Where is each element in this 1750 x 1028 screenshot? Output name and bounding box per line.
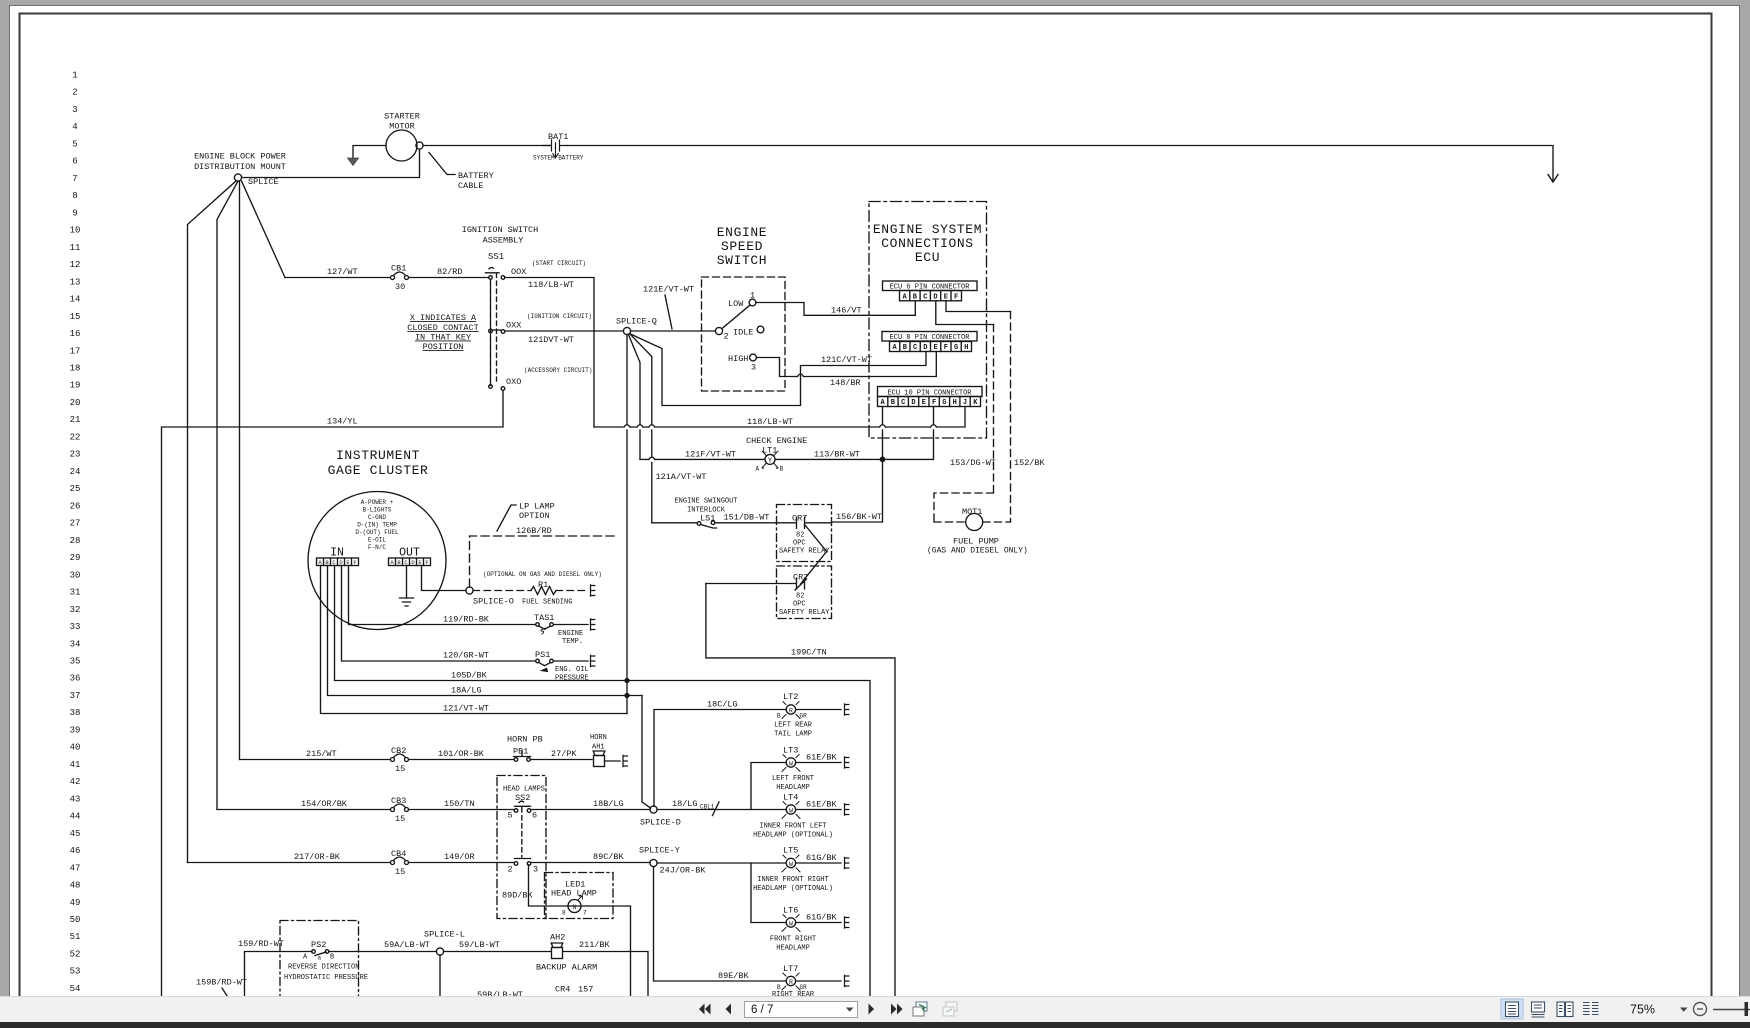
wire 119/RD-BK row <box>349 566 536 625</box>
wire LT6 branch <box>751 863 841 923</box>
wire 199C/TN <box>706 584 895 997</box>
engine speed switch title <box>717 225 767 268</box>
viewer chrome <box>0 0 1750 5</box>
wire 211/BK <box>563 952 648 997</box>
connector E LT4 <box>845 804 849 815</box>
lamp LT6 front right headlamp <box>770 906 838 953</box>
connector E LT6 <box>845 917 849 928</box>
wire 18/LG with cable marker CBL1 <box>657 809 841 811</box>
instrument gage cluster title <box>328 448 429 478</box>
lamp LT3 left front headlamp <box>772 746 838 793</box>
wire ECU pin F down <box>886 407 934 460</box>
lamp LT7 right rear <box>772 964 815 999</box>
wire CB4 row 217/OR-BK <box>188 862 391 864</box>
instrument gage cluster circle <box>308 492 446 630</box>
row numbers <box>70 71 81 995</box>
PS2 box <box>280 921 359 1011</box>
circuit breaker CB1 <box>391 264 409 293</box>
wire 59/LB-WT <box>444 951 552 953</box>
connector E oil pressure <box>591 655 595 666</box>
layout icon single page (selected) <box>1501 999 1523 1019</box>
lamp LT4 inner front left <box>753 793 837 840</box>
wire 149/OR <box>409 862 515 864</box>
switch contact LOW <box>728 291 756 310</box>
circuit breaker CB3 <box>391 796 409 824</box>
ground symbol <box>400 598 414 606</box>
wire 148/BR high to ECU pin E <box>757 352 937 377</box>
wire OUT to splice-O <box>422 566 467 591</box>
LP lamp option dashed wire 126B/RD <box>470 536 618 587</box>
relay CR7 lower contact <box>706 573 830 618</box>
relay CR7 lower box <box>777 566 832 619</box>
switch wiper idle-low <box>722 306 750 329</box>
splice fan wire to CB4 column <box>188 181 237 863</box>
connector E tail lamp <box>845 704 849 715</box>
wire 89D/BK to LED1 <box>529 865 631 997</box>
ground arrow <box>348 158 359 166</box>
cluster legend <box>355 499 399 551</box>
wire 101/OR-BK <box>409 759 515 761</box>
key position note <box>407 313 478 352</box>
lamp LT5 inner front right <box>753 846 837 894</box>
icon previous view <box>913 1002 927 1016</box>
wire 146/VT low to ECU pin B <box>756 301 915 316</box>
splice node SPLICE-Q <box>623 327 630 334</box>
switch contact HIGH <box>728 354 756 373</box>
wire 24J/OR-BK <box>657 862 841 864</box>
wire 152/BK from ECU 6pin E <box>946 301 1011 312</box>
wire 121/VT-WT row <box>321 566 628 714</box>
splice fan wire to CB2 column <box>239 181 241 760</box>
switch SS2 upper contacts 5-6 <box>508 801 538 858</box>
relay CR7 upper box <box>777 505 832 562</box>
splice node SPLICE-O <box>466 587 473 594</box>
splice-Q drop to check engine <box>629 335 641 460</box>
wire 82/RD <box>409 277 490 279</box>
termination arrow right <box>1548 175 1558 183</box>
ECU 8 pin connector <box>882 332 977 353</box>
wire 18A/LG row <box>328 566 643 696</box>
switch contact IDLE <box>715 326 763 341</box>
cluster IN connector <box>317 547 359 567</box>
connector E LT5 <box>845 857 849 868</box>
backup alarm AH2 <box>536 933 597 973</box>
temp switch TAS1 <box>534 613 588 646</box>
connector E fuel sending <box>591 585 595 596</box>
resistor R1 fuel sending <box>473 580 588 607</box>
starter motor <box>384 112 423 162</box>
wire 153/DG-WT from ECU 6pin D <box>936 301 994 325</box>
wire 89E/BK LT7 branch <box>654 867 842 982</box>
limit switch LS1 <box>697 514 716 529</box>
connector E LT3 <box>845 757 849 768</box>
wire starter motor to battery <box>423 145 550 147</box>
wire splice-Q to idle <box>631 330 716 332</box>
splice fan wire to CB3 column <box>217 181 238 810</box>
head lamps SS2 box <box>497 776 546 919</box>
wire check engine row 121F/VT-WT 113/BR-WT <box>640 458 883 460</box>
wire 27/PK <box>531 759 593 761</box>
wire 151/DB-WT row <box>652 522 697 524</box>
check engine lamp LT1 <box>746 436 807 473</box>
splice node SPLICE-Y <box>650 859 657 866</box>
ECU system connections box <box>869 202 987 439</box>
wire 118/LB-WT row <box>594 407 965 428</box>
lamp LT2 left rear tail <box>774 692 813 739</box>
icon next view (disabled) <box>943 1002 957 1016</box>
wire 134/YL row <box>162 391 504 997</box>
wire ECU drop to 156/BK-WT <box>832 459 883 522</box>
connector E horn <box>623 755 627 766</box>
LED1 head lamp box <box>545 873 614 919</box>
layout icon continuous <box>1532 1002 1545 1017</box>
wire ECU pin A down <box>882 407 884 460</box>
wire starter motor to ground <box>353 146 386 159</box>
wire 59A/LB-WT <box>329 951 437 953</box>
wire 150/TN <box>409 809 515 811</box>
splice node SPLICE-D <box>650 806 657 813</box>
battery BAT1 <box>533 132 584 162</box>
ECU 10 pin connector <box>878 387 983 408</box>
wire 118/LB-WT from OOX down <box>505 278 594 428</box>
ignition switch SS1 <box>486 252 527 390</box>
wire CB2 row 215/WT <box>240 759 391 761</box>
junction node at ECU drop <box>880 457 884 461</box>
connector E LT7 <box>845 975 849 986</box>
cluster OUT connector <box>389 547 431 567</box>
push button PB1 horn <box>507 735 543 762</box>
ECU 6 pin connector <box>883 281 978 301</box>
wire 121DVT-WT from OXX to splice Q <box>505 330 623 332</box>
wire CB3 row 154/OR/BK <box>217 809 390 811</box>
battery cable callout <box>429 153 455 175</box>
wire 105D/BK row <box>335 566 871 997</box>
wire battery cable to splice <box>242 149 420 177</box>
fuel pump MOT1 <box>927 493 1028 556</box>
cluster OUT ground wire <box>406 566 408 599</box>
wire 121C/VT-WT to ECU pin D <box>631 334 927 406</box>
toolbar <box>0 996 1750 1023</box>
relay CR7 upper contact <box>777 514 832 556</box>
wire battery to right side drop <box>567 146 1553 182</box>
circuit breaker CB2 <box>391 746 409 774</box>
splice-Q drop 121A/VT-WT to LS1 <box>630 334 652 523</box>
splice-Q drop to 121/VT-WT <box>626 335 628 714</box>
splice node SPLICE-L <box>436 948 443 955</box>
wire 18 net down to splice-D <box>642 696 651 809</box>
svg-text:75%: 75% <box>1630 1003 1655 1017</box>
wire 159/RD-WT row <box>245 952 313 997</box>
connector E engine temp <box>591 619 595 630</box>
switch SS2 lower contacts 2-3 <box>508 862 539 875</box>
layout icon continuous facing <box>1583 1003 1599 1015</box>
wire 127/WT <box>285 277 390 279</box>
LP lamp option callout <box>497 505 516 531</box>
svg-text:6 / 7: 6 / 7 <box>751 1004 773 1016</box>
engine speed switch box <box>702 277 786 391</box>
relay CR7 wiper diagonal <box>801 525 827 584</box>
layout icon facing <box>1557 1002 1573 1017</box>
pressure switch PS2 <box>284 940 368 982</box>
wire 89C/BK <box>531 862 651 864</box>
wire 120/GR-WT row <box>342 566 536 662</box>
splice node <box>234 174 241 181</box>
pressure switch PS1 <box>535 650 589 683</box>
circuit breaker CB4 <box>391 849 409 877</box>
wire 18B/LG <box>531 809 651 811</box>
splice fan wire to 127/WT <box>242 181 286 278</box>
wire 18C/LG row <box>654 710 841 807</box>
wire LT3 branch <box>751 763 841 810</box>
horn AH1 <box>590 734 620 767</box>
